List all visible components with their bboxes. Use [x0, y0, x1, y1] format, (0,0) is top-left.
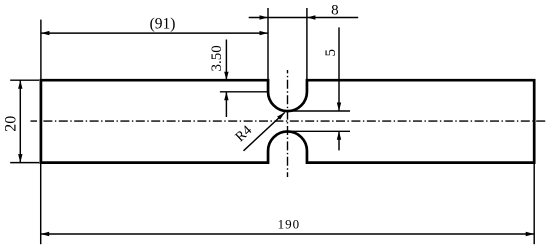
- dimension line 5 lower arrow: [337, 131, 341, 150]
- svg-text:(91): (91): [150, 15, 176, 32]
- dimension line 5 upper arrow: [337, 27, 341, 111]
- dimension line 3.50 lower arrow: [224, 92, 228, 117]
- horizontal centerline: [31, 120, 547, 122]
- extension line for 3.50 (top notch tangent level): [220, 91, 268, 93]
- extension line notch right wall up (for 8 dim): [306, 8, 308, 79]
- dimension line 8: [249, 15, 359, 19]
- extension line for 5 (top arc bottom): [289, 110, 351, 112]
- extension line for 5 (bottom arc top): [289, 130, 351, 132]
- svg-text:3.50: 3.50: [209, 45, 225, 71]
- dimension line 20: [18, 80, 22, 162]
- dimension line 190: [41, 232, 535, 236]
- extension line for 20 top: [10, 79, 39, 81]
- extension line for 190 left: [40, 164, 42, 244]
- extension line for 190 right: [533, 164, 535, 244]
- svg-text:5: 5: [323, 49, 339, 57]
- leader line R4: [244, 112, 285, 150]
- specimen outline (bar with top and bottom notches): [41, 80, 534, 162]
- extension line left edge up (for 91 dim): [40, 20, 42, 80]
- svg-text:20: 20: [3, 116, 20, 132]
- dimension line 3.50 upper arrow: [224, 40, 228, 81]
- extension line for 20 bottom: [10, 162, 39, 164]
- svg-text:190: 190: [278, 217, 301, 232]
- vertical centerline of notch: [287, 70, 289, 177]
- extension line notch left wall up (for 91 and 8 dims): [267, 8, 269, 79]
- dimension line (91): [41, 31, 268, 35]
- svg-text:8: 8: [331, 3, 339, 19]
